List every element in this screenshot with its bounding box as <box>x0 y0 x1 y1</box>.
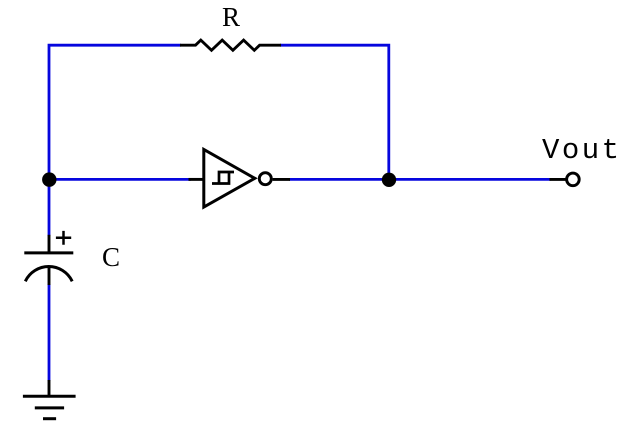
wire: node A down to capacitor + plate <box>48 179 51 236</box>
polarity + mark <box>56 231 71 245</box>
+ plate (straight) <box>24 251 73 254</box>
node B (right junction) <box>382 173 396 187</box>
- plate (curved) <box>25 267 72 282</box>
op-amp U1 : Schmitt-trigger inverter <box>189 150 291 208</box>
wire: resistor right lead to top-right corner, down to node B <box>280 45 389 180</box>
wire: left vertical, node A up to top-left corner, then right to resistor <box>49 45 181 180</box>
hysteresis symbol <box>212 172 234 184</box>
pin 1 input lead <box>189 178 204 181</box>
svg-text:C: C <box>102 242 120 272</box>
inversion bubble <box>259 173 271 185</box>
wire: inverter output through node B toward Vout terminal <box>289 178 551 181</box>
ground bar 1 <box>23 395 76 398</box>
ground bar 3 <box>43 417 56 420</box>
resistor R <box>180 40 281 50</box>
output terminal lead <box>550 178 567 181</box>
wire: capacitor - plate down to ground <box>48 284 51 381</box>
bottom lead <box>48 266 51 286</box>
ground bar 2 <box>35 406 64 409</box>
ground lead <box>48 380 51 396</box>
capacitor C (polarized) <box>24 231 73 285</box>
top lead <box>48 235 51 253</box>
inverter body triangle <box>204 150 255 208</box>
wire: node A to inverter input <box>49 178 191 181</box>
pin 2 output lead <box>273 178 290 181</box>
ground <box>23 380 76 419</box>
svg-text:R: R <box>222 2 240 32</box>
output terminal Vout (open circle) <box>567 173 580 186</box>
node A (left junction) <box>42 172 56 186</box>
